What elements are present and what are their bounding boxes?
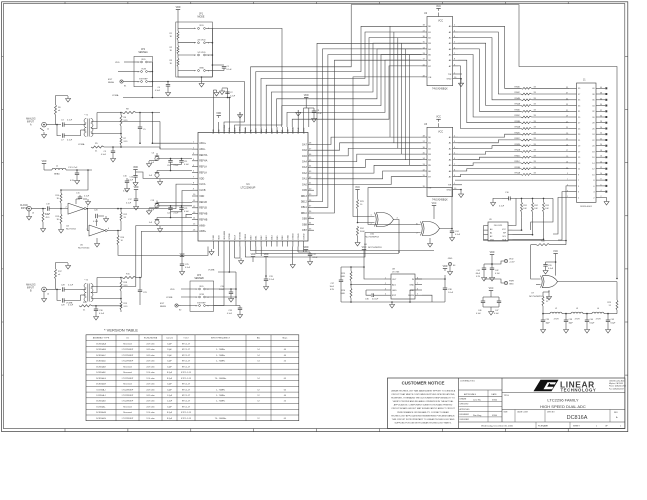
svg-text:MODE: MODE [198,17,205,19]
svg-text:R6: R6 [124,117,127,119]
svg-text:REFHB: REFHB [199,218,208,221]
svg-text:INPUT: INPUT [27,122,34,124]
title row [502,392,625,394]
svg-text:C12 4.7uF: C12 4.7uF [68,167,78,169]
capacitor C24 [451,229,453,232]
svg-text:12.4 ohm: 12.4 ohm [146,378,155,380]
svg-text:R32: R32 [534,205,537,207]
svg-text:1630 McCarthy Blvd.: 1630 McCarthy Blvd. [609,380,625,383]
resistor R28 51 [548,290,550,292]
svg-text:1 - 70MHz: 1 - 70MHz [216,395,225,397]
svg-text:DA12: DA12 [260,128,263,134]
svg-text:8: 8 [593,180,595,182]
svg-text:VDD: VDD [134,187,139,189]
VDD symbol bottom [252,257,254,259]
contract no column [459,389,503,391]
svg-text:1 - 70MHz: 1 - 70MHz [216,355,225,357]
svg-text:0.1uF: 0.1uF [455,234,461,236]
svg-text:DWG NO: DWG NO [547,412,555,414]
svg-text:14: 14 [257,378,260,380]
U1 LTC2296IUP body [198,133,308,242]
xor U10 output wire [394,220,400,253]
svg-text:49.9: 49.9 [46,217,51,219]
svg-text:VCMB: VCMB [66,303,73,305]
svg-text:ASSEMBLY TYPE: ASSEMBLY TYPE [93,337,110,340]
svg-text:A5: A5 [449,164,452,167]
svg-text:VDD: VDD [199,195,204,198]
svg-text:AINA+: AINA+ [199,142,207,145]
capacitor C6 polarized [155,155,159,157]
svg-text:47nH: 47nH [575,319,580,321]
svg-text:ETC1-1T: ETC1-1T [182,395,191,397]
svg-text:8.2pF: 8.2pF [167,378,173,380]
svg-text:4: 4 [87,206,88,208]
wire JP1 to MODE pin [212,28,282,127]
svg-text:6: 6 [208,55,209,57]
svg-text:VDD: VDD [443,266,448,268]
svg-text:nfr: nfr [58,110,61,112]
svg-text:R30: R30 [541,241,546,243]
svg-text:GND: GND [199,67,204,69]
svg-text:TECHNOLOGY: TECHNOLOGY [561,388,597,393]
svg-text:DB7: DB7 [302,229,307,232]
svg-text:HOWEVER, IT REMAINS THE CUSTOM: HOWEVER, IT REMAINS THE CUSTOMER'S RESPO… [391,397,455,400]
svg-text:11: 11 [578,169,581,171]
svg-text:Wednesday, December 06, 2006: Wednesday, December 06, 2006 [481,424,514,427]
svg-text:6/3/04: 6/3/04 [492,415,497,417]
svg-text:REFLB: REFLB [199,207,207,210]
svg-text:VDD: VDD [304,95,309,97]
svg-text:NC7SV04: NC7SV04 [66,229,77,231]
svg-text:31: 31 [578,111,581,113]
svg-text:DB12: DB12 [301,201,308,204]
U8 output rail to VDD [415,278,445,280]
svg-text:A3: A3 [449,42,452,45]
svg-text:C38: C38 [448,289,453,291]
svg-text:DC816A-L: DC816A-L [96,406,106,409]
svg-text:DC816A-M: DC816A-M [96,411,106,414]
svg-text:VCMB: VCMB [229,233,231,240]
svg-text:A2: A2 [490,235,492,238]
svg-text:26: 26 [600,127,602,129]
svg-text:MUX: MUX [234,234,236,239]
svg-text:300K: 300K [360,231,365,233]
svg-text:22: 22 [600,139,602,141]
svg-text:24.9 ohm: 24.9 ohm [146,401,155,403]
svg-text:VDD: VDD [176,7,181,9]
eeprom U9 24LC025 body [488,222,508,241]
svg-text:CUSTOMER NOTICE: CUSTOMER NOTICE [402,381,445,386]
svg-text:TECHNOLOGY APPLICATIONS ENGINE: TECHNOLOGY APPLICATIONS ENGINEERING FOR … [391,414,456,417]
svg-text:1: 1 [567,196,568,198]
svg-text:4.7uF: 4.7uF [495,273,501,275]
U1 GND pin pull-downs [212,90,214,127]
svg-text:U6: U6 [364,244,368,246]
title block outline [388,378,625,429]
svg-text:12: 12 [592,169,595,171]
svg-text:DC816A-E: DC816A-E [96,365,106,368]
svg-text:DB3: DB3 [266,235,268,240]
svg-text:Milpitas, CA 95035: Milpitas, CA 95035 [609,382,623,385]
svg-text:8.2pF: 8.2pF [167,412,173,414]
svg-text:0.1uF: 0.1uF [123,191,129,193]
svg-text:EXT: EXT [108,79,113,81]
svg-text:14: 14 [257,355,260,357]
svg-text:Reserved: Reserved [123,372,132,374]
svg-text:C35: C35 [228,310,233,312]
svg-text:VDD: VDD [264,254,269,256]
svg-text:C4,C21: C4,C21 [166,338,174,340]
svg-text:0.1uF: 0.1uF [126,203,132,205]
REFLB bypass rail [157,205,192,207]
J1 ground [605,196,607,198]
svg-text:40: 40 [600,87,602,89]
svg-text:ETC1-1T: ETC1-1T [182,349,191,351]
svg-text:R5,R6,R8,R9A: R5,R6,R8,R9A [144,337,158,340]
svg-text:2.2uF: 2.2uF [219,289,225,291]
svg-text:0.1uF: 0.1uF [184,211,190,213]
svg-text:A2: A2 [449,37,452,40]
svg-text:10: 10 [600,173,602,175]
svg-text:12.4 ohm: 12.4 ohm [146,412,155,414]
svg-text:70 - 140MHz: 70 - 140MHz [215,378,226,380]
wire SENSEB net [214,247,224,306]
svg-text:R16: R16 [121,237,126,239]
svg-text:9: 9 [567,173,568,175]
svg-text:INPUT: INPUT [27,288,34,290]
svg-text:BEAD: BEAD [54,173,60,176]
svg-text:* T2: * T2 [84,280,89,282]
svg-text:1uF: 1uF [149,222,153,224]
svg-text:11: 11 [566,167,568,169]
svg-text:OGND: OGND [293,127,295,134]
svg-text:7: 7 [567,179,568,181]
svg-text:REFHA: REFHA [199,154,208,157]
border zone ticks [2,56,4,58]
xor U6 output to U3 OE [427,188,452,229]
filter capacitors C39 C38 C40 C43 [542,314,544,320]
svg-text:5: 5 [417,294,418,296]
svg-text:* T1: * T1 [84,115,89,117]
bus wires U2 A0-A7 to RN rows [458,26,521,88]
VCC bypass cluster C46 C47 [490,291,492,293]
size cage dwg row [502,409,625,411]
svg-text:C26: C26 [548,265,553,267]
svg-text:12: 12 [257,401,260,403]
svg-text:24.9 ohm: 24.9 ohm [146,355,155,357]
svg-text:CIRCUIT THAT MEETS CUSTOMER-SU: CIRCUIT THAT MEETS CUSTOMER-SUPPLIED SPE… [391,393,455,396]
svg-text:VCM: VCM [199,294,204,296]
resistor R12 33 [120,208,122,210]
svg-text:1K: 1K [170,63,173,65]
capacitor C38 output [444,279,446,288]
svg-text:28: 28 [592,123,595,125]
svg-text:65: 65 [284,389,287,391]
svg-text:B2: B2 [428,148,431,150]
svg-text:INPUT FREQUENCY: INPUT FREQUENCY [211,338,231,340]
svg-text:24.9 ohm: 24.9 ohm [146,395,155,397]
svg-text:OELB: OELB [245,233,247,239]
svg-text:CGND: CGND [298,127,300,134]
svg-text:C16: C16 [505,192,510,194]
svg-text:MODE: MODE [234,127,236,134]
svg-text:AINB+: AINB+ [199,230,207,233]
svg-text:VDD: VDD [219,235,221,240]
svg-text:R8: R8 [126,109,129,111]
svg-text:0.1uF: 0.1uF [317,113,323,115]
svg-text:REFLB: REFLB [199,201,207,204]
svg-text:R19: R19 [124,303,129,305]
svg-text:3: 3 [385,289,386,291]
svg-text:A4: A4 [449,159,452,162]
svg-text:C21: C21 [184,208,187,210]
clock filter L2 L3 L4 chain [542,313,544,315]
capacitor C27 bypass [305,250,307,252]
svg-text:29: 29 [578,117,581,119]
svg-text:C16: C16 [123,176,128,178]
svg-text:Reserved: Reserved [123,343,132,345]
svg-text:EXT: EXT [160,303,165,305]
svg-text:JP1: JP1 [199,14,204,16]
svg-text:8.2pF: 8.2pF [590,323,596,325]
svg-text:B3: B3 [428,43,431,45]
svg-text:2: 2 [416,233,417,235]
resistor R17 termination [55,279,57,289]
svg-text:2: 2 [385,283,386,285]
svg-text:C8: C8 [317,110,320,112]
svg-text:25: 25 [578,128,581,130]
svg-text:C25: C25 [185,264,190,266]
svg-text:VCM: VCM [141,68,146,70]
svg-text:A7: A7 [449,65,452,68]
svg-text:1: 1 [194,28,195,30]
svg-text:DC816A: DC816A [567,415,588,421]
svg-text:23: 23 [578,134,581,136]
svg-text:U4: U4 [66,226,70,228]
svg-text:15: 15 [566,156,568,158]
svg-text:R23: R23 [360,201,365,203]
svg-text:12pF: 12pF [167,407,172,409]
svg-text:100K: 100K [340,293,345,295]
svg-text:SIZE: SIZE [504,412,509,414]
resistor R6A 24.9 [120,115,122,126]
svg-text:C5: C5 [143,129,146,131]
svg-text:REFHB: REFHB [199,213,208,216]
svg-text:ETC1-1T: ETC1-1T [182,384,191,386]
svg-text:DB9: DB9 [302,218,307,221]
svg-text:0.1uF: 0.1uF [155,90,161,92]
svg-text:6: 6 [601,184,602,186]
svg-text:10K: 10K [523,208,527,210]
svg-text:B0: B0 [428,137,431,139]
svg-text:ANALOG: ANALOG [26,118,36,121]
wire CLKB path [118,245,208,255]
svg-text:CLKA: CLKA [199,183,206,186]
svg-text:VCC: VCC [432,203,437,205]
svg-text:33: 33 [578,105,581,107]
svg-text:B1: B1 [428,32,431,34]
svg-text:0.1uF: 0.1uF [68,305,74,307]
svg-text:12pF: 12pF [167,355,172,357]
svg-text:51: 51 [546,301,549,303]
svg-text:SHDNB: SHDNB [240,232,242,240]
svg-text:0.1uF: 0.1uF [84,196,90,198]
svg-text:1: 1 [578,197,580,199]
svg-text:12pF: 12pF [167,389,172,391]
svg-text:0.1uF: 0.1uF [101,154,107,156]
svg-text:2: 2 [65,207,66,209]
svg-text:ETC1-1T: ETC1-1T [182,407,191,409]
svg-text:51: 51 [83,309,86,311]
svg-text:DA8: DA8 [281,129,284,134]
svg-text:35: 35 [566,99,568,101]
svg-text:VCMA: VCMA [228,127,231,134]
svg-text:6.3V: 6.3V [330,289,335,291]
svg-text:A6: A6 [449,59,452,62]
svg-text:18pF: 18pF [569,323,574,325]
svg-text:8: 8 [601,179,602,181]
T1 secondary wires [91,121,160,123]
capacitor C33 [265,257,267,259]
JP2 VCM wire [118,71,124,73]
svg-text:C37: C37 [330,283,335,285]
capacitor C19 polarized [155,219,159,221]
svg-text:DESIGNER: DESIGNER [460,419,470,421]
svg-text:U10: U10 [370,234,375,236]
svg-text:1: 1 [196,289,197,291]
JP1 ground [201,77,203,81]
svg-text:2/3 VDD: 2/3 VDD [197,40,206,42]
U7 input wires [531,245,541,279]
U1 bottom GND cluster [212,247,214,250]
svg-text:LTC2296IUP: LTC2296IUP [122,361,134,363]
svg-text:REFLA: REFLA [199,166,207,169]
svg-text:Reserved: Reserved [123,407,132,409]
svg-text:12pF: 12pF [167,366,172,368]
bus risers DB12-DB9 to U2 B3-B6 [314,43,422,196]
svg-text:GND: GND [287,129,289,134]
svg-text:U2: U2 [424,12,428,15]
svg-text:WP: WP [503,233,507,235]
svg-text:R33: R33 [545,205,548,207]
svg-text:DC816A-B: DC816A-B [96,348,106,351]
svg-text:33: 33 [124,217,127,219]
svg-text:R20: R20 [83,302,88,304]
svg-text:C10: C10 [167,165,170,167]
svg-text:Bits: Bits [257,337,260,340]
svg-text:8.2pF: 8.2pF [167,418,173,420]
svg-text:B2: B2 [428,38,431,40]
VDD rail to clock buffers [61,170,88,190]
U7 output wire [558,281,618,283]
JP1 MODE jumper block [176,22,213,77]
capacitor C20 [96,219,98,226]
svg-text:CGND: CGND [298,233,300,240]
bus wires U1 DA13-DA8 to U2 B0-B7 [256,26,422,127]
wire clock-out loop to right side [251,5,617,279]
svg-text:A1: A1 [449,142,452,145]
capacitor C23 bridge [139,278,141,291]
VDD symbol and C25 [218,247,220,257]
U1 MUX SHDNB grounds [234,247,236,259]
svg-text:16: 16 [600,156,602,158]
connector J3 [27,206,32,211]
svg-text:FILENAME: FILENAME [538,424,549,427]
resistor R7 24.9 [120,136,122,145]
capacitor C17 [134,198,138,200]
svg-text:40: 40 [284,395,287,397]
svg-text:OE: OE [428,77,432,79]
svg-text:65: 65 [284,418,287,420]
bus verticals linking U2 and U3 inputs [389,26,391,137]
svg-text:40: 40 [284,349,287,351]
svg-text:DATE: DATE [491,393,497,396]
svg-text:DA11: DA11 [265,128,268,134]
svg-text:2: 2 [150,62,151,64]
capacitor C2 [227,97,229,99]
svg-text:2: 2 [208,28,209,30]
svg-text:DB4: DB4 [272,235,274,240]
svg-text:GND: GND [213,235,215,240]
svg-text:10K: 10K [534,208,538,210]
svg-text:J4: J4 [47,294,49,296]
svg-text:23: 23 [566,133,568,135]
svg-text:CIRCUIT BOARD LAYOUT MAY SIGNI: CIRCUIT BOARD LAYOUT MAY SIGNIFICANTLY A… [391,407,455,410]
T2 secondary wires [91,286,136,288]
svg-text:APPROVALS: APPROVALS [464,393,477,396]
svg-text:A0: A0 [449,136,452,139]
J1 low pins wiring [455,179,569,181]
inductor L1 bead [43,164,45,166]
svg-text:22: 22 [592,140,595,142]
svg-text:2.2uF: 2.2uF [269,279,275,281]
capacitor C35 [236,305,240,307]
svg-text:12.4 ohm: 12.4 ohm [146,418,155,420]
svg-text:A: A [30,124,32,127]
resistor R29 51 [616,300,618,310]
svg-text:A0: A0 [490,228,492,231]
svg-text:ETC1-1-13: ETC1-1-13 [181,372,192,374]
title block bottom row [459,421,626,423]
xor U6 gnd [429,238,431,241]
svg-text:VDD: VDD [170,289,175,291]
svg-text:Msps: Msps [283,338,288,340]
svg-text:NC7SV86P5X: NC7SV86P5X [365,237,379,239]
svg-text:OGND: OGND [293,233,295,240]
svg-text:NC7SV86P5X: NC7SV86P5X [529,296,543,298]
svg-text:L2: L2 [555,308,558,310]
svg-text:VDD: VDD [180,254,185,256]
svg-text:VCC: VCC [436,117,441,119]
U4 vcc bypass C15 [75,199,77,204]
svg-text:A2: A2 [449,147,452,150]
svg-text:DC816A-N: DC816A-N [96,417,106,420]
svg-text:VCC: VCC [438,130,443,133]
svg-text:1K: 1K [170,36,173,38]
wire CLKA path [118,184,192,209]
svg-text:0.1uF: 0.1uF [68,285,74,287]
JP3 SENSEB jumper block [190,281,214,311]
svg-text:51: 51 [609,305,612,307]
svg-text:DC816A-J: DC816A-J [96,394,105,397]
svg-text:47nH: 47nH [554,319,559,321]
svg-text:2: 2 [601,196,602,198]
svg-text:DC816A-A: DC816A-A [96,342,106,345]
svg-text:A6: A6 [449,170,452,173]
U8 ground rail [341,301,445,303]
svg-text:1: 1 [385,278,386,280]
resistor R18 24.9 [120,280,122,291]
